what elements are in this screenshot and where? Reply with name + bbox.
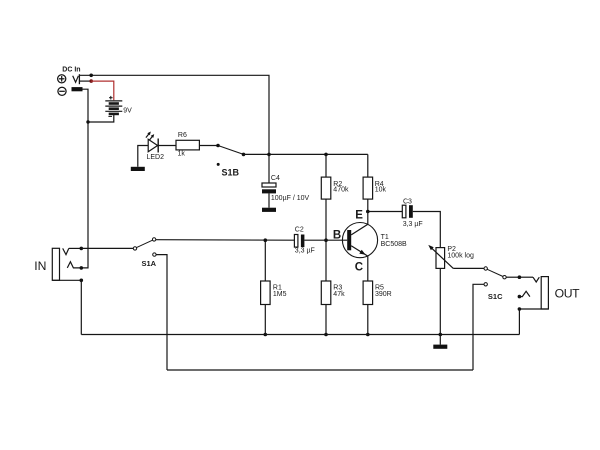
ground bar at DC minus (72, 87, 83, 91)
wire emitter node to C3 (368, 211, 403, 213)
wire R1 bottom lead (264, 305, 266, 335)
svg-text:1M5: 1M5 (273, 291, 287, 298)
svg-text:C4: C4 (271, 175, 280, 182)
wire C2 to base node (304, 239, 326, 241)
svg-text:C: C (355, 261, 363, 273)
svg-text:100k log: 100k log (447, 252, 474, 259)
battery plus mark (109, 96, 113, 100)
svg-text:LED2: LED2 (147, 154, 165, 161)
node DC plus terminal dot (89, 74, 93, 78)
svg-text:C2: C2 (295, 227, 304, 234)
wire R1 top lead (264, 240, 266, 281)
wire base node to transistor (326, 239, 347, 241)
ground under LED2 (131, 167, 145, 171)
transistor T1 (342, 212, 377, 282)
svg-text:E: E (355, 210, 363, 222)
switch S1A (133, 238, 156, 257)
resistor R3 (321, 281, 331, 305)
node base junction (324, 238, 328, 242)
wire R4 top lead (367, 154, 369, 177)
wire bypass rail (167, 369, 473, 371)
resistor R4 (363, 177, 373, 199)
svg-text:3,3 µF: 3,3 µF (295, 248, 315, 255)
wire battery minus net down to IN jack ring (81, 89, 88, 268)
svg-text:100µF / 10V: 100µF / 10V (271, 195, 310, 202)
svg-text:3,3 µF: 3,3 µF (403, 221, 423, 228)
wire S1B to +9V junction (244, 153, 270, 155)
node +9V junction (267, 153, 271, 157)
wire S1C bypass contact down (473, 284, 484, 370)
wire C3 to P2 top (413, 212, 441, 248)
svg-text:S1B: S1B (222, 167, 240, 177)
switch S1B (216, 144, 245, 166)
svg-text:R6: R6 (178, 132, 187, 139)
svg-text:470k: 470k (333, 187, 349, 194)
wire ground stub (439, 335, 441, 345)
node E junction (366, 210, 370, 214)
wire OUT sleeve to ground rail (518, 309, 520, 335)
wire R2 bottom lead to base node (325, 199, 327, 240)
wire R4 bottom lead to emitter node (367, 199, 369, 211)
LED D: LED2 (146, 132, 158, 153)
node DC battery terminal dot (red) (89, 79, 93, 83)
resistor R2 (321, 177, 331, 199)
resistor R5 (363, 281, 373, 305)
svg-text:DC In: DC In (62, 67, 80, 74)
jack IN (52, 247, 83, 283)
node R1 ground junction (264, 333, 268, 337)
node battery minus junction (86, 120, 89, 123)
DC In minus terminal symbol (58, 87, 66, 95)
capacitor C2 (294, 235, 304, 248)
svg-text:47k: 47k (333, 291, 345, 298)
wire S1A bypass contact down (156, 255, 167, 370)
switch S1C (484, 267, 506, 286)
node R1 input junction (264, 238, 268, 242)
svg-text:1k: 1k (178, 150, 186, 157)
svg-text:S1C: S1C (488, 292, 503, 301)
wire R3 bottom lead (325, 305, 327, 335)
DC In plug contact V (73, 76, 79, 83)
capacitor C3 (402, 205, 413, 218)
svg-text:IN: IN (34, 259, 46, 273)
jack OUT (518, 275, 549, 310)
wire LED anode to R6 (158, 145, 176, 147)
wire +9V from DC In to top rail corner (79, 75, 269, 154)
node R5 ground junction (366, 333, 370, 337)
DC In plus terminal symbol (58, 75, 66, 83)
wire P2 wiper to S1C (453, 267, 484, 269)
wire battery minus lead (88, 114, 114, 122)
svg-text:10k: 10k (375, 187, 387, 194)
svg-text:390R: 390R (375, 291, 392, 298)
svg-text:OUT: OUT (555, 286, 581, 300)
node ground rail / P2 junction (439, 333, 443, 337)
wire IN sleeve to ground rail (80, 280, 82, 334)
wire DC minus-pin stub (79, 80, 91, 82)
wire C4 bottom stub (268, 193, 270, 207)
battery minus mark (108, 115, 112, 117)
svg-text:C3: C3 (403, 198, 412, 205)
wire R6 to S1B (199, 145, 218, 147)
capacitor C4 (262, 183, 276, 193)
svg-text:B: B (333, 230, 341, 242)
resistor R1 (261, 281, 271, 305)
wire S1C to OUT tip (506, 276, 519, 278)
node R2 top junction (324, 153, 328, 157)
wire R5 bottom lead (367, 305, 369, 335)
wire red battery positive (91, 81, 114, 100)
wire R2 top lead (325, 154, 327, 177)
resistor R6 (176, 140, 199, 150)
ground under C4 (262, 208, 276, 212)
wire input net S1A to C2 (156, 239, 295, 242)
svg-text:BC508B: BC508B (381, 241, 407, 248)
wire R3 top lead (325, 240, 327, 281)
DC In plug bar (78, 74, 80, 84)
potentiometer P2 (428, 245, 453, 335)
wire +9V rail to R2/R4 (269, 153, 368, 155)
wire C4 top stub (268, 154, 270, 183)
ground under rail (433, 345, 447, 349)
wire ground rail (81, 334, 519, 336)
node R3 ground junction (324, 333, 328, 337)
battery 9V (105, 101, 122, 114)
svg-text:S1A: S1A (142, 259, 157, 268)
wire LED cathode-side to ground (138, 146, 148, 167)
svg-text:9V: 9V (123, 108, 132, 115)
wire IN tip to S1A (81, 247, 133, 249)
